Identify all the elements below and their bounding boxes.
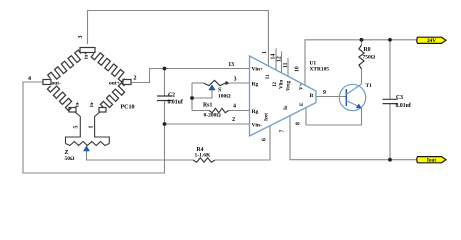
junction node 24V rail / C3 — [388, 38, 392, 42]
svg-text:Rg: Rg — [252, 81, 259, 87]
wire R0 bottom lead to T1 collector — [361, 69, 363, 84]
wire C3 top lead from rail — [389, 40, 391, 100]
wire C2 bottom lead — [164, 101, 166, 125]
wire stub pin 12 — [281, 52, 283, 73]
svg-text:in-: in- — [76, 101, 81, 107]
svg-text:PC10: PC10 — [121, 105, 135, 111]
svg-text:I2: I2 — [273, 82, 278, 87]
svg-text:Vin-: Vin- — [252, 122, 262, 128]
svg-text:1: 1 — [262, 51, 268, 54]
resistor bridge upper-right arm — [91, 53, 124, 82]
svg-text:5: 5 — [74, 126, 80, 129]
resistor bridge lower-right arm — [100, 83, 124, 108]
junction node Vin+ / C2 top — [163, 67, 167, 71]
svg-text:3: 3 — [78, 36, 84, 39]
svg-text:12: 12 — [277, 56, 283, 62]
svg-text:4: 4 — [28, 76, 31, 82]
wire bridge pin5 leg — [66, 112, 81, 144]
junction node Vin- / C2 bottom — [163, 122, 167, 126]
svg-text:in+: in+ — [85, 52, 90, 59]
wire bridge pin1 leg — [95, 112, 110, 144]
svg-text:0.01uf: 0.01uf — [396, 103, 411, 109]
wire stub pin 11 — [287, 58, 289, 76]
svg-text:Rs1: Rs1 — [203, 103, 212, 109]
wire C2 top lead — [164, 69, 166, 97]
transistor T1 base bar — [345, 89, 347, 106]
wire XTR105 pin 7 (Io) to Iout node — [290, 116, 417, 160]
svg-text:11: 11 — [283, 62, 289, 68]
junction node Iout / C3 — [388, 158, 392, 162]
wire XTR105 pin 10 (V+) to 24V rail — [305, 40, 417, 85]
wire Rs1 left lead — [192, 110, 209, 112]
wire R0 top lead from rail — [361, 40, 363, 45]
svg-text:Io: Io — [284, 105, 289, 110]
resistor bridge upper-left arm — [48, 50, 81, 79]
bridge top terminal pad (pin 3 / in+) — [80, 48, 95, 53]
svg-text:T1: T1 — [366, 83, 373, 89]
svg-text:Vreg: Vreg — [287, 80, 292, 91]
svg-text:24V: 24V — [427, 38, 436, 44]
capacitor C2 plates — [157, 96, 172, 101]
svg-text:R0: R0 — [364, 47, 371, 53]
potentiometer S wiper arrow — [209, 85, 215, 90]
wire gain network left vertical — [191, 83, 193, 111]
wire XTR105 pin 3 to gain network — [230, 82, 250, 84]
potentiometer S 100 ohm zigzag — [204, 80, 226, 85]
bridge right terminal pad (pin 2 / out+) — [123, 80, 131, 85]
transistor T1 collector stroke — [346, 84, 361, 95]
svg-text:C3: C3 — [396, 95, 403, 101]
potentiometer Z wiper arrow — [84, 146, 90, 151]
wire XTR105 pin 9 (B) to T1 base — [316, 96, 346, 98]
wire bridge out+ to XTR105 pin 13 (Vin+) — [131, 69, 250, 83]
power flag Iout — [417, 157, 446, 163]
svg-text:out-: out- — [52, 81, 62, 87]
svg-text:Iout: Iout — [427, 158, 436, 164]
svg-text:0-200Ω: 0-200Ω — [204, 113, 222, 119]
svg-text:2: 2 — [134, 76, 137, 82]
potentiometer Z 50 ohm zigzag — [66, 142, 110, 146]
wire stub pin 14 — [275, 48, 277, 69]
svg-text:9: 9 — [323, 90, 326, 96]
svg-text:750Ω: 750Ω — [363, 55, 376, 61]
svg-text:100Ω: 100Ω — [218, 94, 231, 100]
svg-text:4: 4 — [233, 104, 236, 110]
wire Vin- node to XTR105 pin 2 — [165, 123, 250, 125]
bridge lower-left pad (pin 5) — [69, 108, 76, 113]
potentiometer S terminal arrow — [226, 81, 230, 86]
wire XTR105 pin 4 to Rs1 — [229, 110, 250, 112]
svg-text:7: 7 — [280, 130, 286, 133]
svg-text:V+: V+ — [300, 83, 305, 90]
svg-text:1-1.6K: 1-1.6K — [195, 153, 211, 159]
svg-text:1: 1 — [89, 126, 95, 129]
wire bridge out- to bottom rail to C2 bottom node — [23, 82, 165, 173]
capacitor C3 plates — [383, 99, 398, 103]
resistor Rs1 zigzag — [209, 108, 229, 112]
svg-text:C2: C2 — [168, 93, 175, 99]
power flag 24V — [417, 37, 446, 43]
svg-text:B: B — [310, 93, 314, 99]
svg-text:13: 13 — [228, 62, 234, 68]
svg-text:in-: in- — [90, 101, 95, 107]
svg-text:Rg: Rg — [252, 109, 259, 115]
bridge left terminal pad (pin 4 / out-) — [43, 80, 51, 85]
wire C3 bottom lead to Iout node — [389, 104, 391, 160]
wire top rail from bridge pin3 to XTR105 pin 1 — [88, 11, 269, 66]
wire XTR105 pin 8 (E) to T1 emitter — [306, 108, 362, 125]
svg-text:8: 8 — [296, 122, 302, 125]
svg-text:E: E — [300, 102, 305, 106]
junction node 24V rail / R0 — [360, 38, 364, 42]
wire Z wiper to R4 to XTR105 pin 6 — [87, 151, 194, 160]
transistor T1 emitter stroke with arrow — [346, 101, 358, 107]
svg-text:Vlin: Vlin — [280, 80, 285, 89]
resistor R0 zigzag — [359, 45, 364, 69]
svg-text:3: 3 — [234, 77, 237, 83]
svg-text:0.01uf: 0.01uf — [168, 100, 183, 106]
svg-text:2: 2 — [232, 117, 235, 123]
transistor T1 circle — [339, 84, 365, 110]
resistor R4 zigzag — [193, 158, 215, 162]
svg-text:10: 10 — [295, 66, 301, 72]
svg-text:I1: I1 — [266, 74, 271, 79]
bridge lower-right pad (pin 1) — [99, 108, 106, 113]
svg-text:Iret: Iret — [265, 113, 270, 121]
junction node S wiper junction — [190, 96, 194, 100]
svg-text:XTR105: XTR105 — [310, 67, 330, 73]
svg-text:out+: out+ — [109, 81, 120, 87]
svg-text:50Ω: 50Ω — [65, 156, 76, 162]
wire S left lead — [192, 82, 204, 84]
svg-text:Vin+: Vin+ — [252, 67, 264, 73]
op-amp U1 XTR105 body — [250, 56, 317, 136]
svg-text:6: 6 — [262, 138, 268, 141]
wire S wiper to node — [192, 90, 212, 98]
resistor bridge lower-left arm — [47, 86, 71, 111]
